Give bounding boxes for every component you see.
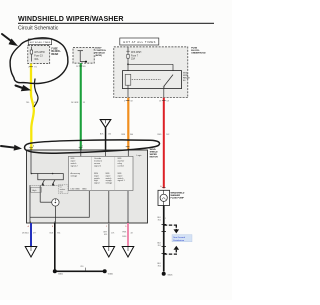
hot-at-all-times label box (underhood fuse block) xyxy=(120,38,159,45)
title underline xyxy=(18,23,214,24)
svg-text:2: 2 xyxy=(28,67,29,69)
Lo/washer/mist label box xyxy=(59,185,69,194)
motor internal wiring xyxy=(30,150,128,223)
svg-text:signal 2: signal 2 xyxy=(71,165,79,167)
svg-text:25: 25 xyxy=(76,66,78,68)
svg-text:150: 150 xyxy=(108,133,111,135)
svg-text:LSD GND: LSD GND xyxy=(71,189,81,191)
wire from yellow pin xyxy=(30,150,32,174)
svg-text:15A: 15A xyxy=(131,58,136,61)
svg-text:C8: C8 xyxy=(130,101,132,103)
svg-text:477: 477 xyxy=(33,233,36,235)
switch arm right xyxy=(52,180,55,185)
svg-text:851: 851 xyxy=(81,266,84,268)
wire to blue pin xyxy=(29,185,31,223)
label WINDSHIELD WASHER FLUID PUMP xyxy=(171,193,185,200)
svg-text:REAR: REAR xyxy=(51,53,58,56)
svg-text:E1: E1 xyxy=(35,67,37,69)
label FUSE BLOCK-REAR xyxy=(51,48,60,56)
top pin ticks xyxy=(30,148,32,151)
ground G305 (right dot) xyxy=(162,272,174,277)
svg-text:Fuse 23: Fuse 23 xyxy=(34,56,43,58)
park switch riser xyxy=(39,185,41,202)
wire orn pin to logic xyxy=(127,150,129,156)
wire cam to blk pin xyxy=(54,206,56,223)
svg-text:signal 1: signal 1 xyxy=(118,180,126,182)
svg-text:142: 142 xyxy=(166,134,169,136)
svg-text:RED: RED xyxy=(157,134,162,136)
annotation: arrow to motor box corner xyxy=(1,145,22,151)
windshield wiper motor (big box) xyxy=(27,148,148,224)
fuse F23 xyxy=(30,47,32,51)
svg-text:GND: GND xyxy=(82,189,87,191)
svg-text:signal: signal xyxy=(94,183,100,185)
splice tick xyxy=(84,268,86,272)
wire blk pin to logic xyxy=(105,150,107,156)
svg-text:Distribution: Distribution xyxy=(173,239,185,242)
annotation: long ellipse over motor box top xyxy=(25,140,160,153)
svg-text:1: 1 xyxy=(165,218,166,220)
motor logic block (inner box) xyxy=(69,155,143,191)
svg-text:mist: mist xyxy=(60,190,64,193)
wire black 851 (right ground run) xyxy=(157,206,179,272)
switch frame xyxy=(38,174,64,180)
ground G305 (dot) xyxy=(53,269,64,275)
svg-text:1036: 1036 xyxy=(122,236,126,238)
svg-text:HOT AT ALL TIMES: HOT AT ALL TIMES xyxy=(123,40,155,44)
riser to cam circle xyxy=(40,201,52,203)
pin name texts col1 row1 xyxy=(71,157,126,190)
label FUSE BLOCK-UNDERHOOD xyxy=(191,47,206,54)
fuse block - underhood (dashed box) xyxy=(114,47,191,98)
svg-text:Circuit Schematic: Circuit Schematic xyxy=(18,26,59,32)
svg-text:WINDSHIELD WIPER/WASHER: WINDSHIELD WIPER/WASHER xyxy=(18,15,124,23)
wire dark green (circuit 35) xyxy=(71,63,86,150)
svg-text:voltage: voltage xyxy=(106,182,114,185)
wire dark blue 477 xyxy=(22,223,36,247)
annotation: circle around rear fuse block xyxy=(10,38,68,84)
ground G306 (dot) xyxy=(103,269,114,275)
body control module BCM (dashed box) xyxy=(73,48,94,64)
svg-text:ORN: ORN xyxy=(121,134,126,136)
svg-text:MOTOR: MOTOR xyxy=(150,156,159,158)
svg-text:G306: G306 xyxy=(108,274,114,276)
svg-text:DK GRN: DK GRN xyxy=(71,102,79,104)
pin letters (red) xyxy=(28,225,128,228)
svg-text:voltage: voltage xyxy=(71,174,79,177)
svg-text:43: 43 xyxy=(131,233,133,235)
hot-at-all-times label box (rear fuse block) xyxy=(28,39,51,45)
wire red (circuit 142) xyxy=(157,98,169,189)
svg-text:471: 471 xyxy=(111,233,114,235)
wire orange (circuit 300) xyxy=(121,98,133,150)
svg-text:FLUID PUMP: FLUID PUMP xyxy=(171,197,185,199)
svg-text:W/S WPR: W/S WPR xyxy=(34,52,45,54)
switch common bar xyxy=(31,173,64,175)
fuse W/S WSH xyxy=(127,47,129,55)
svg-text:695: 695 xyxy=(104,234,107,236)
chassis ground triangle above motor (BLK 150) xyxy=(100,120,111,128)
switch junction dots xyxy=(31,173,33,175)
label WINDSHIELD WIPER MOTOR xyxy=(150,149,159,158)
svg-text:851: 851 xyxy=(158,266,161,268)
svg-text:(BCM): (BCM) xyxy=(95,55,102,57)
feed to relay contact xyxy=(127,63,129,65)
svg-text:C8: C8 xyxy=(166,101,168,103)
svg-text:W/S WSH: W/S WSH xyxy=(131,52,142,54)
svg-text:851: 851 xyxy=(158,245,161,247)
svg-text:30A: 30A xyxy=(34,58,39,61)
wire green pin to logic xyxy=(80,150,82,156)
svg-text:Fuse 7: Fuse 7 xyxy=(131,55,139,57)
switch linkage dashed line xyxy=(30,184,64,186)
relay contact xyxy=(164,75,173,87)
annotation: arrow to circle (top-left) xyxy=(2,34,18,46)
annotation: pen trace beside yellow wire xyxy=(34,79,38,107)
svg-text:13: 13 xyxy=(159,101,161,103)
svg-text:2: 2 xyxy=(124,101,125,103)
inline connector C2 (upper) xyxy=(164,224,177,226)
switch arm left xyxy=(42,180,45,185)
ground triangle (gry) xyxy=(103,247,115,258)
svg-text:See Ground: See Ground xyxy=(173,236,186,239)
logic to pnk pin xyxy=(127,191,129,223)
svg-text:YEL: YEL xyxy=(26,102,30,104)
svg-text:35: 35 xyxy=(83,102,85,104)
wire black 851 (left ground run) xyxy=(50,223,106,272)
svg-text:Logic: Logic xyxy=(137,155,143,157)
cam to logic link xyxy=(30,191,89,217)
relay linkage dashed xyxy=(132,79,161,81)
ground triangle (pnk) xyxy=(122,247,134,258)
windshield washer fluid pump xyxy=(158,190,170,205)
see ground distribution link xyxy=(172,235,192,242)
label BODY CONTROL MODULE (BCM) xyxy=(95,48,106,57)
svg-text:HOT AT ALL TIMES: HOT AT ALL TIMES xyxy=(30,41,51,44)
relay coil xyxy=(125,74,131,85)
wire yellow (circuit 41) xyxy=(26,64,37,150)
logic to gry pin xyxy=(108,191,110,223)
fuse block - rear (dashed box) xyxy=(28,45,50,63)
svg-text:control: control xyxy=(118,164,125,167)
svg-text:E9: E9 xyxy=(83,66,85,68)
svg-text:UNDERHOOD: UNDERHOOD xyxy=(191,52,206,54)
svg-text:851: 851 xyxy=(158,220,161,222)
ground triangle (dk blu) xyxy=(25,247,37,258)
relay W/S WPR RELAY xyxy=(123,71,182,89)
wire pink 1036 xyxy=(122,223,133,247)
svg-text:851: 851 xyxy=(57,233,60,235)
bottom pin ticks xyxy=(30,221,32,224)
inline connector (lower) xyxy=(174,246,180,250)
BCM driver symbol xyxy=(78,50,83,52)
svg-text:High: High xyxy=(32,190,36,192)
switch arm arrowheads xyxy=(41,183,44,186)
annotation: arrow to yellow wire xyxy=(16,85,32,91)
wire black 150 xyxy=(100,128,111,150)
park switch cam circle xyxy=(52,199,59,206)
wire gray 471 xyxy=(103,223,114,247)
High position label xyxy=(31,187,42,192)
svg-text:DK BLU: DK BLU xyxy=(22,233,29,235)
svg-text:signal 1: signal 1 xyxy=(94,165,102,167)
svg-text:300: 300 xyxy=(130,134,133,136)
